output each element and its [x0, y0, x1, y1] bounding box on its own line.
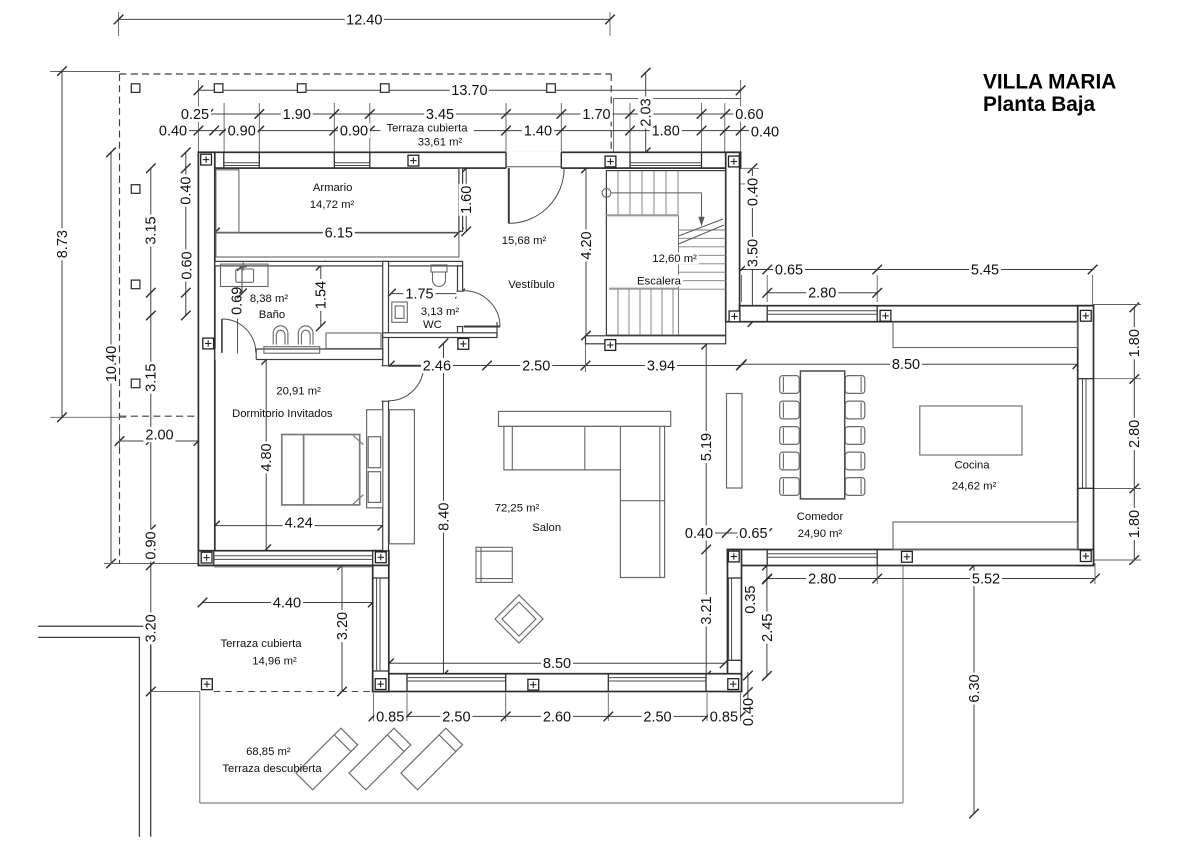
dim 2.03 porch — [645, 73, 647, 153]
svg-text:Comedor: Comedor — [797, 511, 844, 523]
entry door leaf — [508, 168, 510, 223]
svg-text:3.94: 3.94 — [647, 358, 675, 374]
wall anchor box 6 — [458, 339, 469, 350]
dim 8.40 label — [436, 501, 452, 533]
stair right flight treads — [679, 229, 726, 231]
svg-text:12,60 m²: 12,60 m² — [652, 253, 697, 265]
kitchen counter north — [893, 322, 1078, 347]
wall anchor box 12 — [902, 551, 913, 562]
dim 2.00 — [120, 440, 199, 442]
svg-text:0.60: 0.60 — [735, 107, 763, 123]
svg-text:0.40: 0.40 — [685, 526, 713, 542]
interior wall armario east — [459, 168, 463, 231]
interior wall WC east upper — [458, 266, 463, 291]
porch pillar top 4 — [381, 84, 390, 93]
porch pillar left 2 — [131, 280, 140, 289]
svg-text:24,90 m²: 24,90 m² — [798, 528, 843, 540]
svg-text:0.40: 0.40 — [751, 125, 779, 141]
svg-text:4.20: 4.20 — [579, 231, 595, 259]
dim 2.03 porch label — [638, 96, 655, 128]
dashed terrace boundary inner bottom edge — [120, 415, 199, 417]
porch pillar left 3 — [131, 379, 140, 388]
dim 12.40 label — [345, 12, 384, 27]
svg-text:Escalera: Escalera — [637, 276, 682, 288]
svg-text:5.52: 5.52 — [972, 571, 1000, 587]
svg-text:3.45: 3.45 — [426, 107, 454, 123]
interior wall below WC — [383, 333, 497, 338]
porch pillar top 5 — [464, 84, 473, 93]
svg-text:0.85: 0.85 — [376, 709, 404, 725]
svg-text:4.80: 4.80 — [259, 443, 275, 471]
dim 1.75 — [391, 293, 460, 295]
dim 0.35/2.45 labels — [743, 585, 759, 613]
bed fold corners — [353, 435, 364, 445]
dim 0.65/5.45 line — [742, 269, 1093, 271]
svg-text:1.80: 1.80 — [1127, 329, 1143, 357]
dim 0.69 line — [241, 266, 243, 293]
svg-text:3.50: 3.50 — [745, 239, 761, 267]
dining chairs left — [780, 376, 800, 394]
banyo washbasin tap — [242, 262, 244, 271]
wall anchor box 2 — [408, 155, 419, 166]
svg-text:5.45: 5.45 — [971, 262, 999, 278]
porch pillar top 6 — [547, 84, 556, 93]
banyo door leaf — [221, 319, 223, 353]
dim 8.40 — [443, 343, 445, 675]
svg-text:3,13 m²: 3,13 m² — [421, 306, 460, 318]
wall anchor box 16 — [202, 679, 213, 690]
stair middle divider — [678, 215, 680, 335]
svg-text:3.15: 3.15 — [144, 216, 160, 244]
svg-text:Dormitorio Invitados: Dormitorio Invitados — [232, 408, 333, 420]
svg-text:2.60: 2.60 — [543, 709, 571, 725]
wall anchor box 18 — [528, 679, 539, 690]
dormitorio door leaf — [389, 365, 424, 367]
sofa back — [499, 411, 671, 426]
svg-text:33,61 m²: 33,61 m² — [418, 137, 463, 149]
window salon east — [728, 577, 742, 579]
sun lounger 3 — [401, 728, 463, 790]
wall anchor box 9 — [880, 310, 891, 321]
bed pillow 1 — [368, 437, 380, 468]
dim 4.20 label — [579, 230, 595, 262]
svg-text:12.40: 12.40 — [346, 12, 382, 28]
dining table — [800, 371, 844, 499]
cocina/comedor south wall — [728, 550, 1094, 566]
extension lines 8.73 — [50, 71, 120, 73]
bed pillow 2 — [368, 472, 380, 503]
wall anchor box 13 — [1080, 551, 1091, 562]
svg-text:1.90: 1.90 — [283, 107, 311, 123]
dim 6.15 — [215, 231, 459, 233]
dim chain right of stairs labels — [745, 176, 761, 208]
svg-text:0.60: 0.60 — [180, 251, 196, 279]
dim 2.00 label — [144, 427, 176, 442]
dining chairs right — [845, 376, 865, 394]
porch pillar top 2 — [214, 84, 223, 93]
entry door opening — [506, 151, 561, 169]
armario closet horizontal — [216, 233, 459, 257]
wall anchor box 1 — [201, 154, 212, 165]
dim chain top row2 leader — [741, 130, 751, 132]
dim 6.30 label — [967, 673, 983, 705]
banyo bidet — [298, 326, 313, 345]
stair start circle — [602, 189, 611, 198]
wall anchor box 5 — [203, 338, 214, 349]
svg-text:3.21: 3.21 — [699, 596, 715, 624]
dim chain left inner labels — [178, 175, 194, 207]
stair landing edge upper — [606, 214, 678, 216]
svg-text:13.70: 13.70 — [451, 83, 487, 99]
sun lounger 2 — [349, 728, 411, 790]
svg-text:4.24: 4.24 — [285, 515, 313, 531]
svg-text:8,38 m²: 8,38 m² — [250, 293, 289, 305]
sofa chaise armrest line — [659, 426, 661, 577]
coffee table — [476, 547, 512, 582]
dim 4.40 — [203, 602, 373, 604]
banyo door swing arc — [222, 319, 256, 353]
svg-text:2.00: 2.00 — [145, 428, 173, 444]
dim 8.50 cocina label — [890, 357, 922, 372]
svg-text:0.90: 0.90 — [228, 124, 256, 140]
window salon south 2 — [607, 674, 609, 692]
window W1 top wall — [223, 152, 225, 168]
dim 2.80/5.52 line — [767, 578, 1095, 580]
wall anchor box 14 — [201, 552, 212, 563]
dim chain cocina right labels — [1127, 327, 1143, 359]
cocina north wall — [740, 306, 1094, 322]
dim 8.50 cocina — [742, 363, 1078, 365]
svg-text:8.50: 8.50 — [543, 656, 571, 672]
svg-text:2.03: 2.03 — [639, 98, 655, 126]
svg-text:14,72 m²: 14,72 m² — [310, 199, 355, 211]
window W3 top wall stairs — [629, 152, 631, 168]
dim 4.80 label — [259, 442, 275, 474]
dim 1.75 label — [404, 286, 436, 301]
dashed terrace boundary left edge — [119, 74, 121, 564]
salon east wall — [728, 550, 742, 692]
svg-text:VILLA MARIA: VILLA MARIA — [983, 71, 1116, 94]
sofa cushion line — [584, 426, 586, 470]
dormitorio door opening — [382, 366, 390, 401]
svg-text:1.75: 1.75 — [405, 287, 433, 303]
interior wall below stairs — [586, 336, 726, 344]
svg-text:Cocina: Cocina — [954, 459, 990, 471]
salon TV sideboard — [389, 410, 414, 544]
WC door leaf — [464, 326, 500, 328]
dim chain right of stairs line — [751, 168, 753, 322]
svg-text:3.15: 3.15 — [144, 364, 160, 392]
comedor sideboard — [727, 394, 743, 489]
interior wall banyo south — [215, 349, 383, 360]
svg-text:Armario: Armario — [313, 182, 353, 194]
svg-text:0.65: 0.65 — [775, 262, 803, 278]
svg-text:0.90: 0.90 — [144, 531, 160, 559]
uncovered terrace south edge — [200, 802, 903, 804]
dim 0.65/5.45 labels — [773, 262, 805, 277]
dim 5.19/3.21 line — [705, 345, 707, 676]
entry porch outline — [614, 99, 741, 153]
svg-text:2.46: 2.46 — [423, 358, 451, 374]
armchair rotated — [495, 595, 543, 643]
dim chain top row2 labels — [157, 123, 189, 138]
svg-text:1.40: 1.40 — [524, 124, 552, 140]
garden path outer line — [38, 626, 151, 837]
interior wall dormitorio east — [383, 261, 389, 550]
wall anchor box 15 — [375, 552, 386, 563]
banyo washbasin counter — [221, 264, 269, 286]
stair enclosure — [606, 171, 725, 336]
porch pillar top 3 — [297, 84, 306, 93]
kitchen island — [920, 406, 1022, 455]
stair direction line — [611, 193, 702, 220]
dim 10.40 label — [104, 344, 120, 383]
dim 4.24 — [215, 525, 382, 527]
dim 8.50 salon label — [541, 656, 573, 671]
svg-text:WC: WC — [423, 319, 442, 331]
dim 0.69 label — [229, 287, 245, 315]
svg-text:2.50: 2.50 — [522, 358, 550, 374]
bed — [282, 435, 360, 505]
svg-text:0.40: 0.40 — [159, 124, 187, 140]
dim 1.60 — [465, 168, 467, 231]
svg-text:1.60: 1.60 — [459, 186, 475, 214]
WC door opening — [456, 291, 463, 327]
svg-text:8.73: 8.73 — [55, 230, 71, 258]
dim 0.40/0.65 comedor line — [700, 532, 767, 534]
window salon south 1 — [406, 674, 408, 692]
dim chain left inner line — [185, 152, 187, 315]
exterior wall left — [198, 152, 214, 565]
svg-text:0.85: 0.85 — [710, 709, 738, 725]
dim 12.40 — [119, 18, 610, 20]
svg-text:2.50: 2.50 — [442, 709, 470, 725]
extension lines top — [118, 12, 120, 36]
dim 0.40 salon east line — [747, 672, 749, 700]
dim 1.54 label — [313, 279, 329, 311]
bed sheet line — [303, 435, 305, 505]
dim chain salon bottom line — [373, 715, 740, 717]
svg-text:6.30: 6.30 — [967, 674, 983, 702]
svg-text:8.40: 8.40 — [436, 503, 452, 531]
WC door swing arc — [464, 291, 500, 327]
sofa chaise divider — [620, 500, 664, 502]
wall anchor box 7 — [605, 340, 616, 351]
salon west wall — [373, 551, 389, 692]
dim 4.24 label — [283, 515, 315, 530]
sill line dormitorio terrace — [215, 566, 373, 568]
covered terrace open edge dashed — [214, 691, 373, 693]
svg-text:0.25: 0.25 — [181, 107, 209, 123]
svg-text:4.40: 4.40 — [273, 595, 301, 611]
dim 1.54 — [320, 266, 322, 327]
interior wall WC stub — [496, 322, 498, 338]
wall anchor box 19 — [728, 679, 739, 690]
dim 6.30 — [973, 566, 975, 814]
dormitorio south wall — [198, 551, 388, 566]
window salon west — [373, 577, 389, 579]
dim 0.40/0.65 comedor labels — [683, 526, 715, 541]
svg-text:20,91 m²: 20,91 m² — [276, 385, 321, 397]
svg-text:Vestíbulo: Vestíbulo — [508, 279, 554, 291]
dim 13.70 label — [450, 83, 489, 98]
svg-text:10.40: 10.40 — [104, 346, 120, 382]
porch pillar top 1 — [131, 84, 140, 93]
wall anchor box 4 — [729, 156, 740, 167]
dim 1.60 label — [459, 184, 475, 216]
svg-text:0.35: 0.35 — [743, 585, 759, 613]
dim 5.19/3.21 labels — [699, 431, 715, 463]
dim chain left labels — [143, 215, 159, 247]
svg-text:8.50: 8.50 — [892, 357, 920, 373]
window cocina south — [766, 550, 768, 566]
entry door swing arc — [509, 168, 564, 223]
dim chain vestibule bottom line — [390, 365, 741, 367]
terrace connector line — [151, 691, 200, 693]
salon south wall — [373, 674, 742, 692]
stair break line — [679, 219, 724, 236]
WC washbasin — [392, 302, 408, 322]
svg-text:72,25 m²: 72,25 m² — [495, 502, 540, 514]
wall anchor box 10 — [1080, 310, 1091, 321]
svg-text:Baño: Baño — [259, 309, 285, 321]
svg-text:5.19: 5.19 — [699, 433, 715, 461]
bed headboard — [367, 410, 383, 508]
dim chain top row1 labels — [179, 107, 211, 122]
WC toilet — [431, 265, 447, 272]
dim 4.20 — [585, 168, 587, 335]
svg-text:Salon: Salon — [532, 522, 561, 534]
extension lines salon bottom chain — [372, 693, 374, 721]
svg-text:15,68 m²: 15,68 m² — [502, 235, 547, 247]
svg-text:0.40: 0.40 — [745, 178, 761, 206]
sofa chaise left edge — [619, 426, 621, 470]
svg-text:2.50: 2.50 — [643, 709, 671, 725]
dim 4.80 — [265, 360, 267, 550]
label terraza cubierta top — [380, 122, 473, 134]
wall anchor box 8 — [729, 311, 740, 322]
dim 3.20 terrace — [341, 565, 343, 691]
armario closet vertical — [216, 170, 239, 233]
svg-text:14,96 m²: 14,96 m² — [252, 655, 297, 667]
dim chain cocina right line — [1133, 307, 1135, 560]
dim 2.80/5.52 labels — [806, 571, 838, 586]
window cocina east — [1078, 378, 1094, 380]
banyo washbasin bowl — [236, 269, 254, 282]
banyo door opening — [216, 348, 257, 361]
dormitorio door swing arc — [389, 366, 424, 401]
dim 4.40 label — [271, 595, 303, 610]
svg-text:2.80: 2.80 — [808, 286, 836, 302]
exterior wall top — [198, 152, 740, 168]
dim chain top row2 line — [166, 130, 741, 132]
svg-text:2.80: 2.80 — [808, 571, 836, 587]
dim 13.70 — [198, 89, 740, 91]
wall anchor box 3 — [605, 156, 616, 167]
svg-text:3.20: 3.20 — [144, 614, 160, 642]
dim chain top row1 line — [184, 113, 725, 115]
svg-text:0.40: 0.40 — [179, 176, 195, 204]
dim 8.73 — [61, 71, 63, 417]
svg-text:Planta Baja: Planta Baja — [983, 93, 1096, 116]
window W2 top wall — [333, 152, 335, 168]
svg-text:0.65: 0.65 — [739, 526, 767, 542]
svg-text:Terraza cubierta: Terraza cubierta — [221, 638, 303, 650]
stair lower flight treads — [617, 289, 619, 335]
dim 2.80 cocina top — [767, 292, 877, 294]
svg-text:24,62 m²: 24,62 m² — [952, 480, 997, 492]
dim chain vestibule bottom labels — [421, 358, 453, 373]
dim 8.50 salon — [389, 662, 725, 664]
banyo toilet ledge — [264, 347, 320, 354]
banyo toilet — [273, 326, 288, 345]
stair block east wall — [726, 152, 740, 321]
dim 2.80 cocina top label — [806, 285, 838, 300]
dim 10.40 — [110, 152, 112, 563]
wall anchor box 17 — [375, 679, 386, 690]
sofa left armrest line — [511, 426, 513, 470]
dashed terrace boundary right edge — [610, 74, 612, 152]
svg-text:6.15: 6.15 — [325, 225, 353, 241]
stair landing edge lower — [609, 288, 679, 290]
dim 0.35/2.45 line — [766, 566, 768, 676]
dim chain salon bottom labels — [374, 709, 406, 724]
svg-text:2.80: 2.80 — [1127, 420, 1143, 448]
svg-text:68,85 m²: 68,85 m² — [246, 746, 291, 758]
extension line below 10.40 — [104, 563, 198, 565]
dim 8.73 label — [54, 228, 71, 260]
svg-text:2.45: 2.45 — [760, 614, 776, 642]
svg-text:1.54: 1.54 — [314, 281, 330, 309]
dim 3.20 terrace label — [335, 610, 351, 642]
svg-text:1.80: 1.80 — [1127, 510, 1143, 538]
svg-text:0.90: 0.90 — [340, 124, 368, 140]
label escalera — [651, 253, 699, 265]
garden path inner line — [38, 637, 139, 836]
wall anchor box 11 — [728, 551, 739, 562]
svg-text:Terraza descubierta: Terraza descubierta — [222, 763, 322, 775]
sliding door dormitorio south — [213, 551, 215, 566]
svg-text:1.80: 1.80 — [652, 124, 680, 140]
extension 2.00 — [119, 425, 121, 448]
svg-text:1.70: 1.70 — [582, 107, 610, 123]
dim chain left line — [150, 168, 152, 691]
cocina east wall — [1078, 306, 1094, 566]
svg-text:0.40: 0.40 — [741, 698, 757, 726]
dim 0.40 salon east label — [741, 698, 757, 726]
stair upper flight treads — [617, 171, 619, 216]
sofa body — [504, 426, 665, 577]
uncovered terrace east edge — [902, 566, 904, 804]
uncovered terrace west edge — [199, 692, 201, 804]
kitchen counter south — [893, 522, 1078, 549]
svg-text:3.20: 3.20 — [335, 612, 351, 640]
banyo shower — [326, 333, 381, 349]
window cocina north — [766, 306, 768, 322]
dim 6.15 label — [323, 225, 355, 240]
svg-text:Terraza cubierta: Terraza cubierta — [387, 123, 469, 135]
sun lounger 1 — [296, 728, 358, 790]
dashed terrace boundary top edge — [120, 73, 612, 75]
porch pillar left 1 — [131, 185, 140, 194]
interior wall armario south — [215, 261, 463, 266]
dim chain top row1 leader — [725, 113, 735, 115]
svg-text:0.69: 0.69 — [229, 287, 245, 315]
interior wall WC east lower — [458, 327, 463, 334]
